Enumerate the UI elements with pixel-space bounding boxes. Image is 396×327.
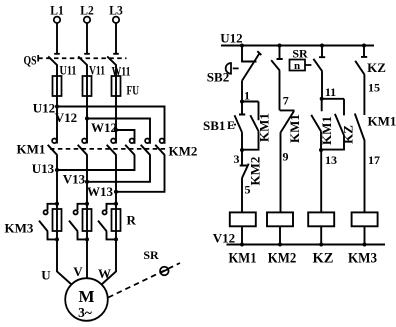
svg-text:L2: L2: [80, 3, 94, 18]
svg-text:U: U: [41, 268, 51, 283]
svg-text:7: 7: [283, 94, 289, 108]
svg-text:KZ: KZ: [341, 125, 356, 144]
svg-text:W13: W13: [87, 184, 114, 199]
node W13: [87, 184, 118, 199]
contact KZ branch D: [355, 46, 386, 76]
top bus U12: [220, 31, 374, 46]
wire W to motor: [98, 239, 116, 284]
pushbutton SB1: [203, 102, 245, 151]
svg-text:U13: U13: [32, 161, 55, 176]
coil KM2: [267, 212, 293, 244]
contact branch B upper: [271, 46, 283, 111]
wire node13 to coil KZ: [320, 150, 322, 212]
svg-text:R: R: [127, 213, 137, 228]
contactor KM3 contact phase U: [39, 204, 57, 240]
wire L1 lead: [56, 23, 58, 54]
switch QS: [24, 53, 127, 68]
speed relay SR shaft link: [108, 248, 180, 298]
wire V to motor: [73, 239, 87, 279]
node 13: [319, 148, 337, 167]
contactor KM1 main contacts: [17, 107, 117, 193]
svg-text:SR: SR: [292, 47, 308, 61]
svg-text:KM3: KM3: [5, 221, 34, 236]
svg-text:3~: 3~: [78, 305, 92, 320]
terminal L2: [80, 3, 94, 23]
wire W13 down: [115, 192, 117, 240]
contact KM1 self-hold: [242, 102, 272, 150]
contact KM1 branch D: [355, 75, 396, 213]
resistor R phase U: [53, 202, 62, 242]
svg-text:n: n: [294, 60, 300, 72]
node bus-KM2: [278, 243, 282, 247]
resistor R phase W: [112, 202, 137, 242]
svg-text:9: 9: [283, 150, 289, 164]
svg-text:KM1: KM1: [17, 142, 46, 157]
wire QS to fuses: [57, 65, 116, 131]
svg-text:W12: W12: [91, 120, 117, 135]
svg-text:SR: SR: [143, 248, 159, 262]
wire L2 lead: [86, 23, 88, 54]
svg-text:13: 13: [325, 153, 337, 167]
node bus-KZ: [319, 243, 323, 247]
wire L3 lead: [115, 23, 117, 54]
bottom bus V12: [213, 231, 385, 246]
svg-text:L1: L1: [50, 3, 64, 18]
coil KM3: [352, 212, 378, 244]
contact KM1 branch B: [280, 110, 302, 212]
wire U to motor: [41, 239, 71, 284]
svg-text:KM3: KM3: [348, 251, 377, 267]
svg-text:5: 5: [245, 183, 251, 197]
node V12: [55, 110, 89, 125]
contact KM1 branch C: [311, 99, 334, 150]
svg-text:SB1: SB1: [203, 118, 225, 133]
terminal L3: [109, 3, 123, 23]
svg-text:KM2: KM2: [169, 144, 198, 159]
svg-text:KZ: KZ: [367, 60, 386, 75]
svg-text:V12: V12: [213, 231, 235, 246]
coil KZ: [308, 212, 334, 244]
pushbutton SB2: [207, 46, 262, 102]
svg-text:V: V: [73, 264, 83, 279]
motor M 3~: [65, 278, 108, 321]
svg-text:11: 11: [325, 85, 336, 99]
node U13: [32, 161, 59, 176]
resistor R phase V: [83, 202, 92, 242]
svg-text:KM1: KM1: [229, 251, 257, 267]
dashed link KM1-KM2: [50, 148, 167, 150]
wire U13 down: [56, 170, 58, 239]
svg-text:M: M: [78, 287, 94, 306]
svg-text:QS: QS: [24, 53, 37, 68]
node bus-KM1: [240, 243, 244, 247]
node V13: [63, 172, 89, 187]
wire U12 to KM2 pole3: [57, 107, 165, 144]
svg-text:15: 15: [368, 81, 380, 95]
contact KM2 interlock NC: [240, 150, 263, 212]
svg-text:KM1: KM1: [319, 116, 334, 145]
wire V12 to KM2 pole2: [87, 119, 150, 144]
svg-text:KM2: KM2: [248, 157, 263, 186]
node bus-KM3: [363, 243, 367, 247]
svg-text:17: 17: [368, 153, 380, 167]
svg-text:3: 3: [234, 152, 240, 166]
svg-text:KM1: KM1: [287, 114, 302, 143]
svg-text:KZ: KZ: [313, 251, 334, 267]
wire node1 branch: [242, 101, 259, 103]
fuse FU phase W11: [112, 64, 140, 98]
svg-text:FU: FU: [127, 83, 140, 98]
svg-text:KM1: KM1: [368, 114, 396, 129]
svg-text:U12: U12: [220, 31, 242, 46]
coil KM1: [230, 212, 256, 244]
fuse FU phase U11: [53, 63, 77, 97]
node bus-B: [278, 44, 282, 48]
wire node11 branch: [322, 98, 344, 100]
node 3: [234, 148, 245, 166]
node W12: [91, 120, 118, 135]
node bus-SR: [320, 44, 324, 48]
svg-text:V13: V13: [63, 172, 86, 187]
node 1: [240, 89, 250, 104]
node 11: [320, 85, 336, 101]
svg-text:KM2: KM2: [268, 251, 297, 267]
svg-text:KM1: KM1: [257, 113, 272, 142]
wire W12 to KM2 pole1: [116, 130, 135, 144]
contact KZ branch C: [321, 99, 356, 150]
contactor KM3 contact phase W: [5, 204, 116, 240]
terminal L1: [50, 3, 64, 23]
contactor KM2 main contacts: [57, 139, 197, 192]
svg-text:V12: V12: [55, 110, 77, 125]
svg-text:L3: L3: [109, 3, 123, 18]
node bus-D: [362, 44, 366, 48]
svg-text:1: 1: [244, 89, 250, 103]
node bus-SB2: [240, 44, 244, 48]
wire V13 down: [86, 182, 88, 240]
speed relay SR contact: [290, 46, 326, 100]
node U12: [33, 101, 59, 116]
svg-text:U12: U12: [33, 101, 55, 116]
contactor KM3 contact phase V: [69, 204, 87, 240]
fuse FU phase V11: [83, 63, 106, 97]
